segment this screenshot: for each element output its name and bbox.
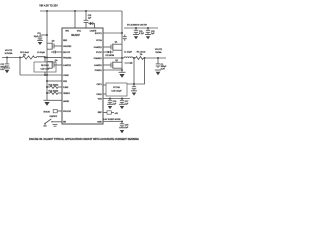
svg-text:D2 BAT54: D2 BAT54	[106, 54, 115, 57]
transistor Q3 upper left MOSFET	[47, 41, 62, 50]
node at 158,58	[157, 57, 159, 59]
svg-text:GND: GND	[97, 121, 102, 123]
node at 122,98.5	[121, 98, 123, 100]
svg-text:1%: 1%	[23, 54, 26, 56]
svg-text:R7 10Ω: R7 10Ω	[113, 87, 120, 89]
node at 47,35	[46, 34, 48, 36]
wire L2 to phase2	[47, 57, 62, 59]
capacitor C27 1uF	[120, 99, 129, 106]
capacitor C32 1uF on 5V rail	[146, 28, 155, 35]
svg-text:REF: REF	[98, 112, 103, 114]
svg-text:VREF2: VREF2	[63, 93, 70, 95]
node at 47,87	[46, 86, 48, 88]
net VOUT2 label	[5, 50, 13, 55]
label L2 value	[37, 52, 45, 54]
node at 47,93	[46, 92, 48, 94]
svg-text:PGND1: PGND1	[95, 70, 103, 72]
wire L1 to R1	[133, 57, 136, 59]
svg-text:FIGURE 38. ISL6237 TYPICAL APP: FIGURE 38. ISL6237 TYPICAL APPLICATION C…	[29, 138, 139, 141]
svg-text:LGATE2: LGATE2	[63, 64, 72, 67]
diode D3 at top	[88, 22, 94, 28]
resistor R26 on REF pin	[103, 111, 119, 115]
svg-text:CSP1: CSP1	[96, 84, 102, 86]
label R1 value	[137, 52, 146, 56]
capacitor C26 1uF	[108, 99, 117, 106]
capacitor C12 bootstrap 1	[123, 35, 127, 41]
node at 122,121.5	[121, 121, 123, 123]
svg-text:VOUT1: VOUT1	[155, 49, 163, 51]
svg-text:VOUT2: VOUT2	[5, 50, 13, 52]
wire between R2 and L2	[35, 57, 37, 59]
wire left rail down x47	[46, 58, 48, 101]
transistor Q4 lower left MOSFET	[47, 60, 62, 69]
current sense network box right (R7 C16)	[103, 83, 127, 96]
inductor L2	[37, 56, 46, 57]
node at 110,98.5	[109, 98, 111, 100]
wire VIN top rail	[40, 10, 122, 12]
wire branch to input cap C21	[40, 34, 47, 36]
current arrow IL	[125, 62, 134, 64]
svg-text:5.0V SLEEP MODE: 5.0V SLEEP MODE	[103, 119, 121, 121]
wire R1 to VOUT1	[144, 57, 167, 59]
wire phase drop to ground x122	[121, 58, 123, 72]
svg-text:VIN 4.5V TO 25V: VIN 4.5V TO 25V	[39, 4, 58, 7]
node at 122,33	[121, 32, 123, 34]
svg-text:ON/OFF: ON/OFF	[50, 116, 58, 118]
svg-text:1%: 1%	[140, 54, 143, 56]
wire AGND pin	[51, 99, 63, 102]
transistor Q1 upper right MOSFET	[103, 41, 122, 50]
svg-text:PVCC: PVCC	[96, 52, 102, 54]
svg-text:5V ALWAYS ON 5W: 5V ALWAYS ON 5W	[127, 24, 148, 27]
resistor R13 on ILIM2	[47, 85, 62, 89]
svg-text:5VSUS: 5VSUS	[44, 111, 51, 113]
capacitor C31 4.7uF on 5V rail	[134, 28, 145, 35]
svg-text:BOOT1: BOOT1	[95, 33, 103, 35]
node at 20,57.5	[19, 57, 21, 59]
IC U1 ISL6237	[62, 28, 103, 124]
svg-text:C16 0.22µF: C16 0.22µF	[111, 91, 122, 93]
svg-text:PGOOD: PGOOD	[63, 111, 71, 113]
wire kelvin sense right x144.5	[127, 58, 145, 84]
svg-text:R14 100kΩ: R14 100kΩ	[49, 91, 59, 93]
svg-text:AGND: AGND	[63, 100, 69, 103]
ground under C29	[119, 128, 125, 134]
wire BOOT1 pin	[103, 32, 122, 34]
svg-text:R8 100Ω: R8 100Ω	[41, 65, 49, 67]
svg-text:CSN1: CSN1	[96, 94, 102, 96]
wire VIN drop right x122	[121, 11, 123, 58]
ground under C27	[119, 104, 125, 109]
svg-text:UGATE1: UGATE1	[94, 46, 103, 49]
wire kelvin sense left x134	[133, 58, 135, 86]
ground under C31	[133, 35, 139, 40]
capacitor C25 1uF at VCC top	[84, 11, 92, 28]
wire CSN2 line	[20, 74, 62, 76]
node at 45,75	[44, 74, 46, 76]
wire LDO5 rail	[103, 98, 130, 100]
node at 148,28	[147, 27, 149, 29]
net 5V ALWAYS ON label	[127, 24, 148, 27]
svg-text:PHASE1: PHASE1	[94, 57, 103, 60]
svg-text:3.3V/5A: 3.3V/5A	[5, 52, 13, 55]
net 5V sleep mode label	[103, 119, 121, 121]
node at 122,58	[121, 57, 123, 59]
svg-text:VCC: VCC	[77, 31, 82, 33]
inductor L1	[124, 57, 133, 58]
node at x47 on VIN rail	[46, 10, 48, 12]
ground under C26	[107, 104, 113, 109]
ground left rail	[44, 100, 51, 106]
node at 134,84	[133, 83, 135, 85]
svg-text:UGATE2: UGATE2	[63, 45, 72, 48]
wire PGND1 pin	[103, 69, 122, 71]
resistor R1 sense zigzag	[136, 57, 144, 60]
svg-text:L2 4.5µH: L2 4.5µH	[37, 52, 45, 54]
node at 7,57.5	[6, 57, 8, 59]
node at 144.5,58	[144, 57, 146, 59]
svg-text:CSN2: CSN2	[63, 75, 69, 77]
svg-text:5V/4A: 5V/4A	[156, 51, 162, 54]
node at 47,75	[46, 74, 48, 76]
node at 136,28	[135, 27, 137, 29]
node at 45,57.5	[44, 57, 46, 59]
svg-text:LGATE1: LGATE1	[94, 64, 103, 67]
capacitor C21 10uF input bypass	[34, 33, 43, 40]
ground under C32	[145, 35, 151, 40]
transistor Q2 lower right MOSFET	[103, 60, 122, 68]
node at 122,70	[121, 69, 123, 71]
diode D2 BAT54	[103, 51, 114, 57]
svg-text:ILIM2: ILIM2	[63, 87, 69, 89]
wire FB2 pin	[47, 80, 62, 82]
svg-text:L1 4.5µH: L1 4.5µH	[124, 52, 132, 54]
node at x75 on VIN rail	[74, 10, 76, 12]
ground under C1	[155, 70, 161, 75]
svg-text:Q3: Q3	[52, 41, 55, 43]
net VOUT1 label	[155, 49, 163, 54]
wire VIN drop left x47	[46, 11, 48, 58]
node at 134,58	[133, 57, 135, 59]
wire VIN pin drop x75	[74, 11, 76, 28]
pin PGOOD pull label and jumper	[44, 109, 63, 113]
resistor R2 sense zigzag	[23, 56, 35, 59]
ground under C17	[131, 91, 137, 96]
svg-text:Q2: Q2	[115, 60, 118, 62]
svg-text:VIN: VIN	[65, 31, 69, 33]
wire VOUT2 output line	[2, 57, 23, 59]
svg-text:6.3V: 6.3V	[0, 69, 5, 71]
svg-text:VCCA: VCCA	[96, 39, 102, 42]
capacitor C1 330uF output	[156, 58, 167, 71]
svg-text:R13 200kΩ: R13 200kΩ	[49, 85, 59, 87]
ground under Q2	[119, 72, 126, 78]
node at x86 on VIN rail	[85, 10, 87, 12]
svg-text:Q1: Q1	[115, 41, 118, 43]
ground under C21	[37, 40, 43, 45]
wire GND/SREF pin	[103, 121, 122, 123]
switch S1 ON/OFF on EN	[43, 116, 62, 126]
current sense network box left (R8 C14)	[34, 58, 56, 76]
capacitor C22 330uF output	[0, 58, 9, 72]
resistor R14 on VREF2	[47, 91, 62, 95]
svg-text:Q4: Q4	[55, 60, 58, 62]
capacitor C13 bootstrap 2	[51, 51, 62, 54]
wire feedback tap down from VOUT2	[19, 58, 21, 76]
svg-text:6.3V: 6.3V	[161, 69, 166, 71]
net VIN label	[39, 4, 58, 7]
wire 5V always-on rail	[124, 27, 158, 29]
wire PHASE1 output line	[103, 57, 124, 59]
svg-text:C14 0.1µF: C14 0.1µF	[40, 69, 50, 71]
svg-text:PHASE2: PHASE2	[63, 56, 72, 59]
node at 47,81	[46, 80, 48, 82]
ground under C22	[4, 68, 10, 73]
capacitor C17 on sense line	[132, 87, 136, 91]
svg-text:4.7µF: 4.7µF	[139, 33, 145, 35]
svg-text:ISL6237: ISL6237	[71, 35, 80, 37]
node at 47,57.5	[46, 57, 48, 59]
label L1 value	[124, 52, 132, 54]
svg-text:BOOT2: BOOT2	[63, 52, 71, 54]
capacitor C29 1uF	[120, 122, 129, 129]
label R2 value	[20, 52, 29, 56]
